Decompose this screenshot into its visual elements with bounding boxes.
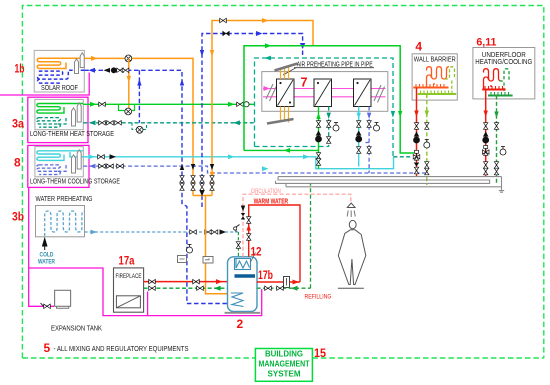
wire circulation pink dashed xyxy=(243,194,351,257)
cooling storage coil return xyxy=(37,165,66,175)
underfloor green comb xyxy=(488,95,513,97)
solar heat exchanger cylinders xyxy=(75,53,85,74)
svg-text:CIRCULATION: CIRCULATION xyxy=(251,188,281,195)
wire solar return branch to teal pump xyxy=(138,70,140,123)
wire warm water red xyxy=(249,205,300,282)
svg-text:FIREPLACE: FIREPLACE xyxy=(116,273,142,280)
preheating coil xyxy=(45,211,85,236)
svg-text:HEATING/COOLING: HEATING/COOLING xyxy=(475,59,532,66)
svg-text:5: 5 xyxy=(44,341,51,355)
wire magenta solar spur xyxy=(0,73,89,96)
wire teal dashed enclosure xyxy=(255,58,394,157)
svg-text:SYSTEM: SYSTEM xyxy=(268,369,301,379)
cooling storage exchanger cylinders xyxy=(72,150,82,173)
svg-text:WATER PREHEATING: WATER PREHEATING xyxy=(36,194,93,203)
heat exchanger unit U1 xyxy=(277,79,295,107)
heat exchanger unit U2 xyxy=(314,79,332,107)
svg-text:8: 8 xyxy=(14,156,21,170)
svg-text:LONG-THERM HEAT STORAGE: LONG-THERM HEAT STORAGE xyxy=(30,129,114,138)
svg-text:7: 7 xyxy=(301,75,308,89)
svg-text:6,11: 6,11 xyxy=(476,36,496,48)
teal pump loop under return xyxy=(132,123,147,130)
hatch left xyxy=(266,84,277,101)
wire U3 cyan drop xyxy=(358,107,360,167)
wire magenta left riser to expansion tank xyxy=(29,187,54,306)
svg-text:17b: 17b xyxy=(258,268,273,282)
wire magenta air lines xyxy=(263,89,386,97)
wire magenta heat storage zone xyxy=(28,97,88,142)
wire preheater outlet light blue dashed xyxy=(85,231,239,233)
svg-text:3a: 3a xyxy=(12,117,24,131)
wire solar return blue dashed xyxy=(84,70,227,303)
tank coil 12 xyxy=(235,253,256,270)
svg-text:2: 2 xyxy=(237,317,244,331)
solar collector coil hot xyxy=(37,58,84,68)
wire magenta bottom route xyxy=(29,268,262,316)
cooling storage coil supply xyxy=(37,151,83,161)
wire tank outlet red right xyxy=(257,281,300,283)
wire top blue dashed manifold xyxy=(202,34,303,208)
wire U3 blue dashed drop xyxy=(366,107,370,174)
faucet symbol on preheat line xyxy=(236,225,240,233)
svg-text:12: 12 xyxy=(251,244,262,258)
heat storage coil supply xyxy=(37,104,83,114)
wire wall barrier red riser xyxy=(416,88,418,177)
wall barrier green comb xyxy=(418,93,457,95)
svg-text:AIR PREHEATING PIPE IN PIPE: AIR PREHEATING PIPE IN PIPE xyxy=(297,61,373,68)
heat storage coil return xyxy=(37,118,66,128)
wall barrier red comb xyxy=(413,87,448,89)
person xyxy=(338,220,366,288)
U1 orange air pipes top xyxy=(281,65,289,79)
wire U2 green drop xyxy=(318,107,320,169)
svg-text:EXPANSION TANK: EXPANSION TANK xyxy=(51,325,102,332)
inner gray box xyxy=(262,72,388,112)
heat exchanger unit U3 xyxy=(354,79,372,107)
green pump loop under supply xyxy=(119,104,135,110)
underfloor red comb xyxy=(482,89,505,91)
svg-text:REFILLING: REFILLING xyxy=(305,293,332,300)
wire solar supply orange horizontal xyxy=(84,58,193,195)
wire magenta fireplace stub xyxy=(147,292,149,316)
svg-text:- ALL MIXING AND REGULATORY EQ: - ALL MIXING AND REGULATORY EQUIPMENTS xyxy=(54,344,189,353)
underfloor green coil xyxy=(500,69,511,93)
svg-text:WALL BARRIER: WALL BARRIER xyxy=(414,57,456,64)
svg-text:4: 4 xyxy=(415,40,422,54)
wire magenta cooling storage zone xyxy=(28,145,89,187)
wall barrier red coil xyxy=(427,67,450,87)
svg-text:1b: 1b xyxy=(15,62,25,76)
svg-text:17a: 17a xyxy=(119,253,135,267)
svg-text:MANAGEMENT: MANAGEMENT xyxy=(259,359,311,369)
svg-text:LONG-THERM COOLING STORAGE: LONG-THERM COOLING STORAGE xyxy=(30,176,120,185)
wire U2 teal dashed drop xyxy=(328,107,330,147)
junction valve green/vertical xyxy=(237,102,244,106)
svg-text:BUILDING: BUILDING xyxy=(265,349,303,359)
valve stubs band xyxy=(180,176,184,183)
solar collector coil cold xyxy=(38,70,85,83)
wire wall barrier green dashed riser xyxy=(426,94,428,185)
wire green main to wall barrier xyxy=(244,46,414,153)
svg-text:WATER: WATER xyxy=(38,259,55,266)
svg-text:WARM WATER: WARM WATER xyxy=(254,196,289,205)
wire fireplace green dashed return xyxy=(144,287,228,289)
hatch right xyxy=(374,85,385,103)
valve on expansion line xyxy=(44,304,51,308)
devices on descending lines xyxy=(178,256,187,263)
underfloor red coil xyxy=(484,69,502,89)
wire teal spur to mixing xyxy=(393,156,411,158)
heat storage exchanger cylinders xyxy=(72,103,82,126)
wire cooling storage return blue dashed xyxy=(83,166,427,173)
svg-text:COLD: COLD xyxy=(40,252,54,259)
wire refilling green dashed xyxy=(257,183,311,288)
wire top orange manifold xyxy=(212,21,313,196)
wire solar pump drop orange xyxy=(128,58,130,109)
tank element 17b xyxy=(235,274,256,277)
wire underfloor red riser xyxy=(485,90,487,177)
wire heat storage supply green xyxy=(83,103,254,105)
cold water arrow xyxy=(43,239,47,251)
wire cooling storage supply cyan xyxy=(83,157,393,169)
wall barrier green coil xyxy=(445,67,456,91)
wire orange Y merge to tank xyxy=(193,196,228,294)
svg-text:3b: 3b xyxy=(12,210,24,224)
wire green lower branch to unit2 xyxy=(244,149,319,151)
wire underfloor green dashed riser xyxy=(496,96,498,186)
svg-text:UNDERFLOOR: UNDERFLOOR xyxy=(482,52,526,59)
U1 orange air pipes bottom xyxy=(281,107,289,123)
wire heat storage return teal dashed xyxy=(83,122,254,124)
svg-text:SOLAR ROOF: SOLAR ROOF xyxy=(41,83,78,92)
svg-text:15: 15 xyxy=(314,348,327,360)
wire fireplace red supply xyxy=(144,281,228,283)
tank bottom coil xyxy=(231,293,244,307)
BUILDING MANAGEMENT SYSTEM box 15 xyxy=(255,349,312,382)
shower head xyxy=(347,203,355,208)
